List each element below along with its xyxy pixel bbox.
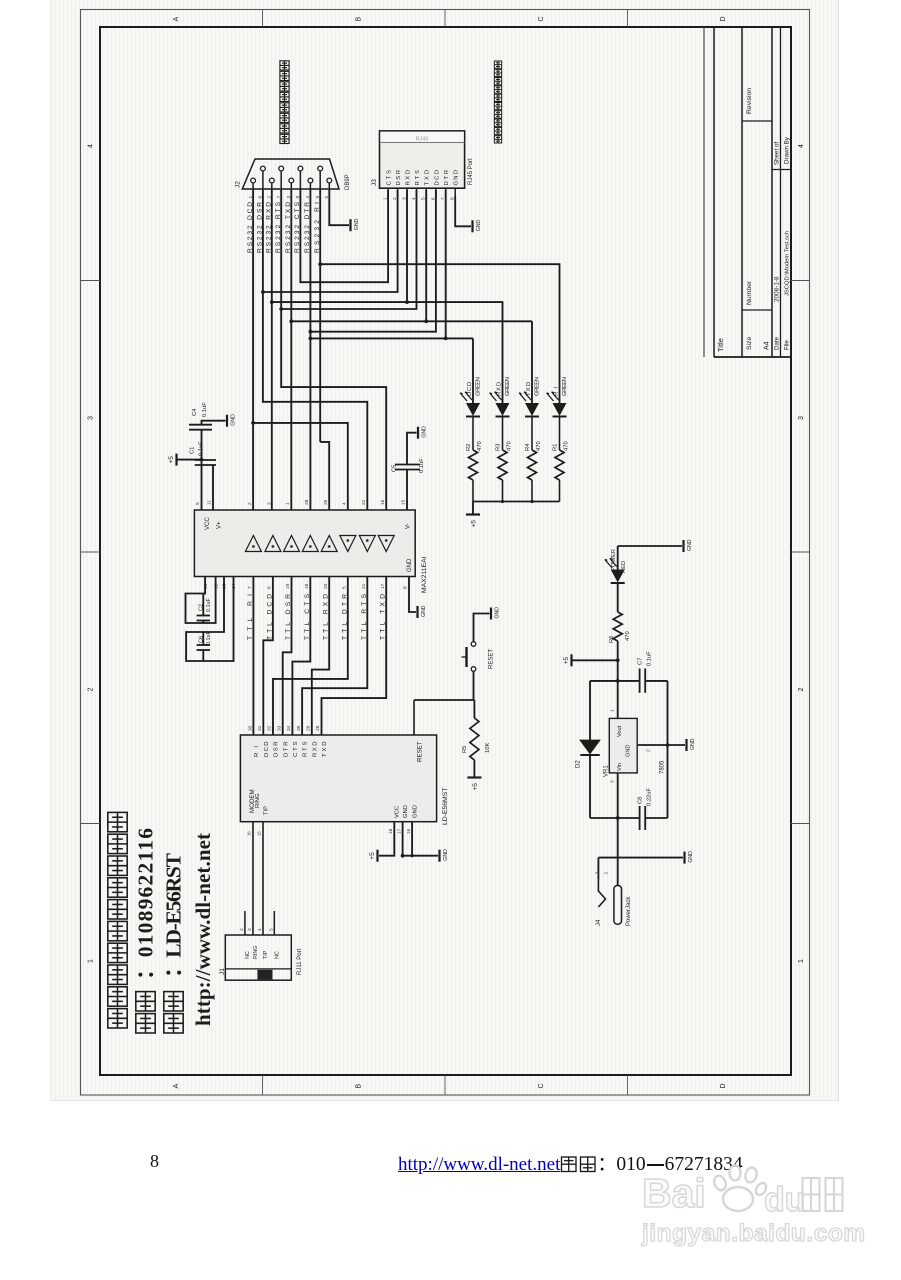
svg-text:NC: NC	[245, 951, 251, 959]
svg-text:21: 21	[361, 583, 367, 589]
svg-text:Drawn By: Drawn By	[784, 136, 791, 164]
svg-text:C8: C8	[638, 797, 644, 804]
svg-text:GND: GND	[354, 218, 360, 230]
svg-text:1: 1	[88, 959, 95, 963]
LED POWER RED	[618, 545, 682, 547]
svg-text:POWER: POWER	[611, 549, 617, 571]
svg-text:C4: C4	[192, 408, 198, 416]
svg-text:B: B	[356, 1084, 363, 1089]
svg-text:DCD: DCD	[434, 170, 440, 186]
capacitor C6 0.1uF loop	[186, 577, 233, 662]
svg-text:11: 11	[207, 500, 213, 505]
svg-text:4: 4	[342, 502, 348, 505]
svg-text:19: 19	[285, 583, 291, 589]
svg-text:JSCQD:\Modem Test.sch: JSCQD:\Modem Test.sch	[785, 231, 791, 296]
svg-text:Vin: Vin	[617, 763, 623, 771]
svg-text:10K: 10K	[485, 743, 491, 753]
svg-text:GREEN: GREEN	[476, 377, 482, 396]
svg-text:2008-1-8: 2008-1-8	[774, 276, 781, 302]
svg-text:2: 2	[239, 928, 245, 931]
RJ45 connector J3	[380, 131, 465, 188]
svg-text:RTS: RTS	[415, 170, 421, 186]
svg-text:4: 4	[88, 144, 95, 148]
svg-text:GND: GND	[422, 426, 428, 438]
VR1 GND pin wire	[637, 744, 685, 746]
svg-text:Date: Date	[774, 336, 781, 350]
wire right branch	[667, 681, 669, 818]
wire bottom rail	[590, 817, 640, 819]
svg-text:+5: +5	[563, 657, 570, 665]
svg-text:GREEN: GREEN	[535, 377, 541, 396]
svg-text:R1: R1	[553, 444, 559, 451]
page number	[150, 1151, 159, 1172]
TXD LED drop	[531, 321, 533, 403]
footer link and phone	[398, 1149, 743, 1176]
svg-text:R5: R5	[462, 746, 468, 753]
svg-text:3: 3	[402, 197, 408, 200]
wire to RXD LED	[272, 301, 504, 303]
svg-text:15: 15	[401, 499, 407, 505]
resistor	[469, 450, 478, 480]
+5 power	[466, 515, 480, 528]
svg-text:VR1: VR1	[604, 765, 610, 777]
svg-text:1: 1	[285, 502, 291, 505]
wire TTL DTR	[273, 577, 348, 736]
svg-text:6: 6	[267, 586, 273, 589]
svg-text:J4: J4	[596, 919, 602, 926]
svg-text:V+: V+	[217, 521, 223, 529]
svg-text:31: 31	[257, 725, 263, 731]
svg-text:DB9P: DB9P	[345, 174, 351, 190]
svg-text:4: 4	[257, 928, 263, 931]
ground near power LED	[684, 539, 694, 552]
svg-text:33: 33	[276, 725, 282, 731]
svg-text:470: 470	[507, 441, 513, 451]
svg-text:RED: RED	[621, 561, 627, 573]
svg-text:Size: Size	[746, 337, 753, 350]
op-amp/level-shifter U2 MAX211EAI	[194, 510, 415, 577]
svg-text:GND: GND	[454, 170, 460, 186]
power jack J4	[598, 879, 605, 907]
svg-text:26: 26	[306, 725, 312, 731]
LED	[519, 392, 539, 417]
wire TTL RXD	[312, 577, 329, 736]
baidu watermark logo	[642, 1170, 706, 1217]
svg-text:3: 3	[247, 928, 253, 931]
svg-text:2: 2	[247, 502, 253, 505]
wire TTL RTS	[302, 577, 367, 736]
svg-text:：LD-E56RST: ：LD-E56RST	[162, 852, 186, 978]
wire d5 RS232 CTS	[300, 190, 388, 282]
LED	[547, 392, 567, 417]
svg-text:R2: R2	[466, 444, 472, 451]
svg-text:DTR: DTR	[444, 170, 450, 186]
svg-text:RJ11 Port: RJ11 Port	[297, 948, 303, 975]
svg-text:GND: GND	[476, 220, 482, 232]
svg-text:Revision: Revision	[746, 88, 753, 114]
svg-text:18: 18	[388, 828, 394, 834]
wire d3 RS232 RTS	[281, 190, 386, 510]
wire to J3 pin5	[425, 190, 427, 321]
svg-text:J3: J3	[371, 179, 378, 186]
svg-text:0.1uF: 0.1uF	[206, 598, 212, 612]
model line	[164, 1014, 183, 1033]
svg-text:GND: GND	[403, 805, 409, 818]
wire Vout pin	[617, 681, 619, 719]
baidu watermark CJK	[801, 1176, 845, 1216]
wire to J3 pin6	[310, 190, 436, 332]
wire branch to U2	[253, 423, 348, 510]
LED rail to +5	[473, 501, 560, 503]
svg-text:DSR: DSR	[274, 742, 280, 758]
wire d0 RS232 DCD straight to U2 pin + branch	[252, 190, 254, 510]
svg-text:GND: GND	[687, 539, 693, 551]
svg-text:Title: Title	[716, 338, 725, 352]
svg-text:1: 1	[383, 197, 389, 200]
svg-text:File: File	[784, 339, 791, 350]
svg-text:3: 3	[798, 416, 805, 420]
wire	[589, 681, 591, 740]
svg-text:28: 28	[304, 499, 310, 505]
RXD LED drop	[502, 302, 504, 403]
svg-text:20: 20	[323, 583, 329, 589]
svg-text:5: 5	[268, 928, 274, 931]
wire C4 to GND	[202, 421, 226, 425]
wire to J3 pin7	[445, 190, 447, 338]
svg-text:R3: R3	[496, 444, 502, 451]
+5 power	[563, 654, 572, 666]
svg-text:8: 8	[403, 586, 409, 589]
capacitor	[640, 669, 646, 693]
svg-text:RTS: RTS	[303, 741, 309, 757]
ground near U1	[440, 849, 450, 862]
svg-text:3: 3	[610, 780, 616, 783]
svg-text:GND: GND	[231, 414, 237, 426]
text: direct cable to CS device port (CJK)	[494, 136, 501, 143]
J1 NC stubs	[244, 911, 246, 935]
wire d7 RS232 RI	[319, 190, 321, 442]
wire RI to U2	[320, 442, 329, 510]
svg-text:C6: C6	[199, 636, 205, 643]
U2 GND stub	[409, 577, 416, 613]
svg-text:CTS: CTS	[293, 741, 299, 757]
svg-text:1: 1	[610, 709, 616, 712]
svg-text:6: 6	[430, 197, 436, 200]
svg-text:17: 17	[380, 583, 386, 589]
svg-text:+5: +5	[369, 852, 376, 860]
zone border ticks	[262, 10, 264, 28]
svg-text:D2: D2	[576, 760, 582, 768]
wire to J3 pin3	[406, 190, 408, 302]
svg-text:C: C	[538, 16, 545, 21]
svg-text:DCD: DCD	[264, 742, 270, 758]
U2 buffers	[245, 536, 261, 552]
svg-text:R6: R6	[609, 636, 615, 643]
svg-text:Vout: Vout	[617, 725, 623, 737]
svg-text:1: 1	[798, 959, 805, 963]
LED	[605, 559, 625, 584]
+5 power	[467, 778, 481, 791]
svg-text:35: 35	[296, 725, 302, 731]
svg-text:470: 470	[536, 441, 542, 451]
svg-text:7: 7	[247, 586, 253, 589]
company name (CJK fake glyphs)	[108, 1009, 127, 1028]
regulator VR1 7805	[609, 718, 637, 773]
J3 GND wire	[455, 196, 471, 226]
svg-text:7805: 7805	[660, 760, 666, 774]
svg-text:CTS: CTS	[387, 170, 393, 186]
svg-text:GND: GND	[690, 738, 696, 750]
svg-text:TXD: TXD	[425, 170, 431, 186]
wire pin9 VCC	[201, 431, 203, 511]
svg-text:22: 22	[361, 499, 367, 505]
wire Vin pin	[617, 773, 619, 818]
svg-text:3: 3	[267, 502, 273, 505]
resistor	[528, 450, 537, 480]
J3 pin stubs	[387, 188, 389, 198]
capacitor	[395, 465, 420, 470]
svg-text:GREEN: GREEN	[562, 377, 568, 396]
svg-text:http://www.dl-net.net: http://www.dl-net.net	[191, 833, 215, 1026]
svg-text:26: 26	[323, 499, 329, 505]
ground near button	[491, 607, 501, 620]
wire to RI LED	[320, 264, 559, 403]
wire TTL CTS	[292, 577, 310, 736]
svg-text:J1: J1	[219, 968, 226, 975]
svg-text:C5: C5	[392, 465, 398, 472]
svg-text:RXD: RXD	[405, 170, 411, 186]
LED	[490, 392, 510, 417]
svg-text:A: A	[173, 1084, 180, 1089]
svg-text:TIP: TIP	[264, 806, 270, 815]
svg-text:Number: Number	[746, 280, 753, 305]
wire TTL TXD	[322, 577, 387, 736]
svg-text:C2: C2	[199, 604, 205, 611]
wire d6 RS232 DTR	[309, 190, 311, 510]
svg-text:5: 5	[342, 586, 348, 589]
svg-text:30: 30	[247, 725, 253, 731]
U1 power pins	[379, 822, 394, 856]
svg-text:7: 7	[440, 197, 446, 200]
svg-text:16: 16	[247, 831, 252, 836]
capacitor	[195, 460, 216, 465]
svg-text:TXD: TXD	[322, 742, 328, 758]
wire C5 to U2 V-	[406, 470, 408, 511]
svg-text:470: 470	[564, 441, 570, 451]
wire TIP to J1	[262, 822, 264, 935]
phone line	[136, 1014, 155, 1033]
LED	[460, 392, 480, 417]
svg-text:TXD: TXD	[526, 382, 532, 396]
svg-text:J2: J2	[235, 181, 242, 188]
svg-text:2: 2	[88, 688, 95, 692]
wire to TXD LED	[291, 320, 532, 322]
wire to DCD LED	[310, 337, 473, 339]
wire: DB9 pin5 to GND	[329, 190, 349, 225]
svg-text:4: 4	[411, 197, 417, 200]
svg-text:32: 32	[267, 725, 273, 731]
svg-text:15: 15	[257, 831, 262, 836]
svg-text:D: D	[720, 16, 727, 21]
svg-text:GND: GND	[421, 605, 427, 617]
svg-text:NC: NC	[275, 951, 281, 959]
svg-text:GND: GND	[495, 607, 501, 619]
resistor	[613, 612, 622, 641]
svg-text:VCC: VCC	[205, 517, 211, 530]
svg-text:DTR: DTR	[283, 742, 289, 758]
title block	[703, 27, 705, 357]
svg-text:C1: C1	[190, 447, 196, 454]
svg-text:GND: GND	[688, 851, 694, 863]
sheet outer frame	[81, 10, 810, 1096]
svg-text:28: 28	[315, 725, 321, 731]
svg-text:GND: GND	[443, 849, 449, 861]
svg-text:0.1uF: 0.1uF	[206, 631, 212, 645]
svg-text:TIP: TIP	[263, 950, 269, 959]
svg-text:Sheet of: Sheet of	[774, 142, 781, 165]
GND junction wire	[598, 857, 683, 859]
svg-text:MAX211EAI: MAX211EAI	[421, 556, 428, 593]
DB9 connector J2	[242, 159, 339, 189]
wire TTL RI	[252, 577, 254, 736]
wire to J3 pin2	[263, 190, 398, 292]
svg-text:0.1uF: 0.1uF	[199, 441, 205, 456]
ground near J4	[685, 851, 695, 864]
resistor	[498, 450, 507, 480]
wire d2 RS232 RXD	[271, 190, 273, 510]
wire TTL DSR	[283, 577, 292, 736]
svg-text:4: 4	[798, 144, 805, 148]
svg-text:：01089622116: ：01089622116	[134, 828, 158, 980]
svg-text:3: 3	[88, 416, 95, 420]
svg-text:GND: GND	[626, 745, 632, 757]
svg-text:GREEN: GREEN	[505, 377, 511, 396]
resistor	[470, 718, 479, 760]
modem module U1 LD-E56MST	[240, 735, 436, 822]
sheet inner frame	[100, 27, 791, 1075]
svg-text:470: 470	[477, 441, 483, 451]
svg-text:16: 16	[406, 828, 412, 834]
svg-text:B: B	[356, 17, 363, 22]
svg-text:GND: GND	[413, 805, 419, 818]
DCD LED drop	[472, 338, 474, 403]
ground near U2	[418, 605, 428, 618]
svg-text:LD-E56MST: LD-E56MST	[442, 788, 449, 825]
svg-text:34: 34	[286, 725, 292, 731]
wire TTL DCD	[263, 577, 273, 736]
J1 latch mark	[257, 970, 272, 980]
ground near VR1	[687, 738, 697, 751]
svg-text:2: 2	[604, 872, 610, 875]
+5 power	[168, 454, 177, 466]
svg-text:0.1uF: 0.1uF	[202, 402, 208, 417]
svg-text:RESET: RESET	[417, 741, 424, 762]
svg-text:16: 16	[380, 499, 386, 505]
svg-text:RESET: RESET	[489, 649, 495, 669]
svg-text:RXD: RXD	[497, 382, 503, 396]
svg-text:0.22uF: 0.22uF	[647, 787, 653, 806]
capacitor	[197, 645, 210, 650]
svg-text:C7: C7	[638, 658, 644, 665]
svg-text:18: 18	[304, 583, 310, 589]
wire RING to J1	[252, 822, 254, 935]
svg-text:9: 9	[195, 502, 201, 505]
svg-text:17: 17	[396, 828, 402, 834]
capacitor	[197, 616, 210, 621]
RJ11 connector J1	[225, 935, 291, 980]
ground near J2	[351, 218, 361, 231]
svg-text:2: 2	[646, 749, 652, 752]
svg-text:3: 3	[595, 872, 601, 875]
svg-text:DCD: DCD	[467, 382, 473, 396]
wire to power jack	[617, 818, 619, 886]
wire d1 RS232 DSR	[263, 190, 367, 510]
svg-text:VCC: VCC	[395, 806, 401, 818]
ground near C5	[418, 426, 428, 439]
U1 RESET wire + R5	[413, 700, 415, 735]
svg-text:RJ45 Port: RJ45 Port	[468, 158, 474, 185]
svg-text:+5: +5	[470, 520, 477, 528]
svg-text:GND: GND	[407, 558, 413, 572]
capacitor	[189, 425, 212, 430]
svg-text:A: A	[173, 17, 180, 22]
push button RESET	[473, 672, 475, 701]
svg-text:C: C	[538, 1083, 545, 1088]
svg-text:RJ45: RJ45	[416, 136, 429, 142]
+5 tap	[616, 658, 620, 662]
svg-text:RING: RING	[253, 946, 259, 959]
svg-text:D: D	[720, 1083, 727, 1088]
wire C5 to GND	[407, 433, 417, 465]
svg-text:V-: V-	[406, 523, 412, 529]
svg-text:RXD: RXD	[312, 742, 318, 758]
svg-text:2: 2	[798, 688, 805, 692]
wire pin11	[212, 465, 214, 510]
svg-text:0.1uF: 0.1uF	[647, 651, 653, 666]
svg-text:DSR: DSR	[396, 170, 402, 186]
wire d4 RS232 TXD	[290, 190, 292, 510]
svg-text:A4: A4	[764, 341, 771, 350]
resistor	[555, 450, 564, 480]
ground near J3	[473, 220, 483, 233]
+5 power	[369, 850, 378, 862]
wire to J3 pin4	[281, 190, 416, 309]
text: direct cable to computer (CJK)	[280, 134, 289, 143]
capacitor	[640, 806, 646, 830]
svg-text:R4: R4	[525, 443, 531, 451]
J2 pin stubs	[262, 171, 264, 190]
svg-text:0.1uF: 0.1uF	[419, 458, 425, 473]
wire top rail	[616, 679, 620, 683]
svg-text:+5: +5	[472, 783, 479, 791]
svg-text:+5: +5	[168, 456, 175, 464]
wire	[589, 755, 591, 818]
svg-text:PowerJack: PowerJack	[626, 896, 632, 926]
svg-text:5: 5	[421, 197, 427, 200]
ground near C4	[227, 414, 237, 427]
svg-text:470: 470	[625, 631, 631, 641]
svg-text:2: 2	[392, 197, 398, 200]
capacitor C2 0.1uF loop	[186, 577, 216, 624]
svg-text:RING: RING	[255, 793, 261, 808]
